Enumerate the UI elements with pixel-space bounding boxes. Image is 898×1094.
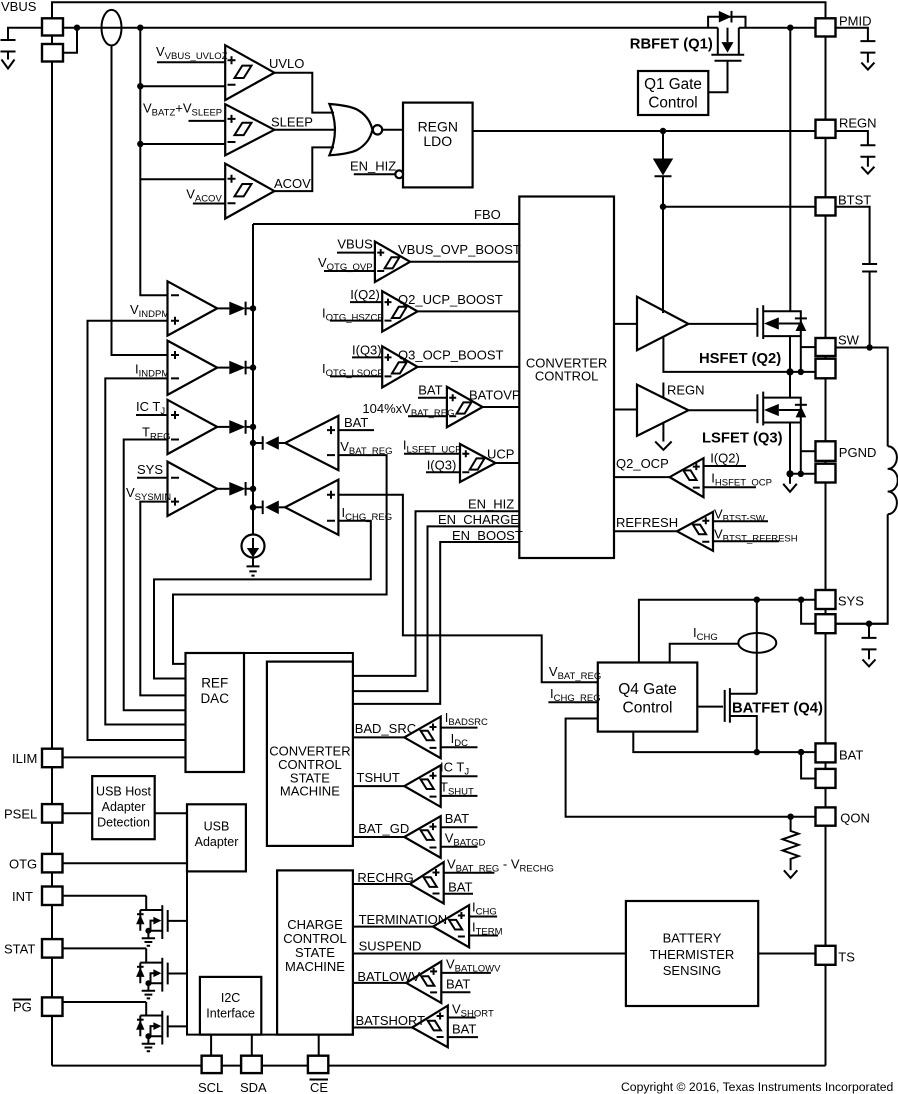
wire UVLO - input from rail (140, 85, 225, 87)
svg-text:DAC: DAC (200, 691, 229, 706)
junction SW node dots (786, 368, 793, 375)
capacitor at PMID (836, 28, 868, 41)
transistor open-drain FET PG (136, 1002, 187, 1051)
pin BAT square2 (816, 769, 836, 788)
wire TERMINATION + input (469, 916, 497, 918)
wire EN_HIZ from state machine to converter control (353, 511, 519, 676)
wire Q2_UCP - input (330, 320, 382, 322)
wire LSFET gate (688, 409, 757, 411)
wire PGND node to pin2 (790, 473, 816, 475)
wire Q2_OCP - input (704, 486, 757, 488)
svg-text:SDA: SDA (240, 1080, 267, 1094)
wire Q3_OCP_BOOST output (418, 366, 520, 368)
svg-text:I(Q2): I(Q2) (710, 451, 740, 466)
wire ACOV + input from rail (140, 178, 225, 180)
svg-text:I(Q3): I(Q3) (352, 343, 382, 358)
svg-text:MACHINE: MACHINE (285, 959, 345, 974)
transistor RBFET Q1 (708, 11, 745, 92)
wire I_CHG_REG stub into Q4 (548, 701, 597, 703)
junction BTST node (660, 204, 666, 210)
pin SCL (202, 1056, 222, 1073)
wire HSFET gate (688, 323, 757, 325)
wire PMID rail down to HSFET drain (789, 28, 791, 312)
svg-text:CE: CE (310, 1080, 328, 1094)
junction BAT node dots (754, 749, 760, 755)
svg-text:PGND: PGND (839, 445, 877, 460)
svg-text:SCL: SCL (198, 1080, 223, 1094)
error amp IC TJ / TREG (168, 400, 218, 454)
wire UCP + input (404, 453, 460, 455)
block USB Host Adapter Detection (92, 776, 155, 839)
svg-text:Control: Control (648, 95, 697, 112)
svg-text:PG: PG (13, 1000, 32, 1015)
diode VINDPM to bus (217, 307, 229, 309)
label REGN supply stub (662, 383, 664, 398)
svg-text:BAT: BAT (452, 1022, 476, 1037)
comparator UCP (460, 444, 496, 482)
wire right pin rail (825, 37, 827, 1066)
ground chevron under resistor (784, 870, 797, 878)
wire bottom rail (52, 1065, 826, 1067)
error amp SYS / VSYSMIN (168, 462, 218, 516)
svg-text:Q4 Gate: Q4 Gate (618, 681, 677, 698)
svg-text:ACOV: ACOV (274, 176, 311, 191)
comparator BATLOWV (points left) (353, 982, 406, 984)
wire Q3_OCP + input (352, 356, 382, 358)
pin SDA (241, 1056, 262, 1073)
pin BTST (816, 197, 836, 215)
wire Q2_UCP_BOOST output (418, 310, 520, 312)
svg-text:BATSHORT: BATSHORT (356, 1013, 426, 1028)
svg-text:BAT: BAT (445, 811, 469, 826)
comparator BAT_GD (points left) (353, 836, 404, 838)
ground chevron under PMID cap (861, 63, 874, 70)
wire center column outline (187, 871, 353, 1034)
wire IINDPM - input to REF DAC rail (105, 378, 185, 724)
pin BAT square1 (816, 743, 836, 762)
wire inductor bottom to SYS (836, 514, 888, 624)
svg-text:TSHUT: TSHUT (357, 770, 400, 785)
pin SYS square2 (816, 614, 836, 633)
pin PGND square2 (816, 464, 836, 483)
wire Q4 bottom to BAT (633, 732, 815, 753)
ground chevron under REGN cap (861, 167, 874, 174)
error amp VINDPM (168, 281, 218, 335)
wire BATSHORT + input (448, 1017, 476, 1019)
comparator TERMINATION (points left) (353, 926, 433, 928)
wire REF DAC top link to state machine (244, 653, 353, 662)
pin CE (overline) (308, 1056, 328, 1073)
svg-text:EN_BOOST: EN_BOOST (452, 528, 523, 543)
svg-text:I(Q3): I(Q3) (427, 458, 457, 473)
wire from ellipse down to IINDPM + input (112, 46, 168, 356)
wire HSFET driver lower terminal to SW (663, 337, 790, 372)
wire BAT_GD - input (441, 846, 478, 848)
svg-text:BATOVP: BATOVP (469, 388, 521, 403)
wire NOR output to REGN LDO (382, 129, 403, 131)
junction PMID node (787, 25, 793, 31)
svg-text:BATLOWV: BATLOWV (357, 969, 420, 984)
wire ACOV output to NOR (274, 147, 334, 191)
error amp IINDPM (168, 341, 218, 395)
svg-text:REGN: REGN (667, 383, 705, 398)
transistor open-drain FET STAT (136, 948, 187, 998)
diode ICTJ to bus (217, 426, 229, 428)
junction REGN node (660, 128, 666, 134)
comparator SLEEP (225, 104, 274, 155)
block Q4 Gate Control (598, 663, 698, 732)
block I2C Interface (200, 977, 261, 1035)
wire ICTJ + input stub (136, 414, 168, 416)
block CONVERTER CONTROL STATE MACHINE (267, 662, 353, 846)
svg-text:REF: REF (201, 676, 228, 691)
junction at x=140 on VBUS row (137, 25, 143, 31)
svg-text:INT: INT (12, 889, 33, 904)
wire amp2 + input to Q4 gate control (V_BAT_REG) (338, 495, 597, 683)
svg-text:I(Q2): I(Q2) (350, 287, 380, 302)
svg-text:CHARGE: CHARGE (287, 917, 343, 932)
svg-text:USB: USB (204, 820, 230, 834)
svg-text:UVLO: UVLO (269, 56, 304, 71)
wire SW to inductor top (836, 348, 888, 447)
block USB Adapter (187, 804, 246, 871)
svg-text:SUSPEND: SUSPEND (359, 939, 422, 954)
capacitor at REGN (836, 131, 868, 145)
inductor L (888, 446, 898, 514)
junction UVLO - on rail (137, 83, 143, 89)
comparator BATSHORT (points left) (353, 1027, 412, 1029)
svg-text:LDO: LDO (423, 133, 452, 149)
wire left pin rail (x=52 down entire left side) (51, 36, 53, 1066)
svg-text:Detection: Detection (97, 816, 150, 830)
wire amp1 - input V_BAT_REG to REF DAC (173, 455, 387, 664)
wire QON into Q4 gate control (566, 719, 816, 817)
svg-text:BTST: BTST (838, 193, 871, 208)
transistor open-drain FET INT (136, 896, 187, 946)
comparator Q2_UCP_BOOST (382, 291, 417, 331)
junction QON resistor tap (787, 814, 793, 820)
wire x=663 down to HSFET driver top (662, 207, 664, 313)
buffer LSFET gate driver (614, 409, 637, 411)
svg-text:SLEEP: SLEEP (271, 115, 313, 130)
wire VSYSMIN + input to REF DAC rail (140, 502, 185, 696)
junction BTST cap to SW wire (866, 344, 872, 350)
comparator RECHRG (points left) (353, 883, 410, 885)
junction SYS node dots (754, 597, 760, 603)
ground chevron under LSFET driver (655, 423, 671, 450)
diode SYS to bus (217, 488, 229, 490)
capacitor at VBUS input (8, 28, 42, 40)
wire SDA stub (251, 1035, 253, 1056)
block CONVERTER CONTROL (519, 197, 614, 559)
wire BATOVP + input (418, 397, 447, 399)
svg-text:REFRESH: REFRESH (616, 515, 678, 530)
svg-text:REGN: REGN (839, 116, 877, 131)
wire BATOVP output (483, 406, 520, 408)
svg-text:ILIM: ILIM (12, 751, 37, 766)
svg-text:VBUS: VBUS (337, 237, 373, 252)
svg-text:UCP: UCP (487, 447, 514, 462)
svg-text:EN_CHARGE: EN_CHARGE (438, 512, 519, 527)
wire BAD_SRC - input (441, 746, 478, 748)
wire error bus vertical (252, 224, 254, 535)
wire BTST row to pin (663, 206, 816, 208)
pin TS (816, 946, 836, 965)
svg-text:TS: TS (838, 950, 855, 965)
comparator Q3_OCP_BOOST (382, 346, 417, 387)
svg-text:VBUS_OVP_BOOST: VBUS_OVP_BOOST (398, 242, 521, 257)
svg-text:Q2_OCP: Q2_OCP (616, 456, 669, 471)
svg-text:CONTROL: CONTROL (535, 369, 599, 384)
wire REFRESH - input (713, 540, 779, 542)
wire SLEEP - input from rail (140, 143, 225, 145)
svg-text:OTG: OTG (9, 857, 37, 872)
wire top rail VBUS to PMID (52, 2, 826, 18)
svg-text:Q3_OCP_BOOST: Q3_OCP_BOOST (398, 348, 504, 363)
transistor BATFET Q4 (697, 688, 757, 752)
wire Q2_UCP + input (350, 301, 382, 303)
wire SYS - input stub (137, 477, 168, 479)
svg-text:SYS: SYS (137, 462, 163, 477)
wire Q4 top to SYS (639, 600, 816, 663)
svg-text:TERMINATION: TERMINATION (359, 912, 448, 927)
comparator VBUS_OVP_BOOST (375, 242, 410, 283)
svg-text:PSEL: PSEL (4, 807, 37, 822)
svg-text:BAT: BAT (344, 415, 368, 430)
wire TSHUT - input (441, 795, 478, 797)
comparator BATOVP (447, 387, 483, 427)
svg-text:SW: SW (838, 333, 860, 348)
error amp BAT/V_BAT_REG (points left) (285, 416, 338, 470)
svg-text:RECHRG: RECHRG (357, 870, 413, 885)
comparator TSHUT (points left) (353, 785, 404, 787)
svg-text:BAT_GD: BAT_GD (358, 821, 409, 836)
wire BATOVP - input (408, 415, 447, 417)
wire ACOV - input (193, 203, 225, 205)
svg-text:Q1 Gate: Q1 Gate (644, 76, 702, 93)
svg-text:CONTROL: CONTROL (283, 931, 347, 946)
wire BATLOWV + input (441, 972, 491, 974)
wire VBUS_OVP + input (337, 252, 375, 254)
wire RECHRG - input (444, 893, 473, 895)
current sense ellipse I_CHG (756, 600, 758, 694)
wire BATLOWV - input (441, 991, 470, 993)
svg-text:VBUS: VBUS (1, 0, 37, 14)
ground chevron under VBUS capacitor (2, 60, 15, 69)
buffer HSFET gate driver (614, 323, 637, 325)
svg-text:BATTERY: BATTERY (663, 931, 722, 946)
junction SLEEP - on rail (137, 141, 143, 147)
resistor QON pulldown (783, 817, 799, 871)
wire VBUS_OVP_BOOST output (410, 261, 519, 263)
wire SW pin1 stub (801, 346, 816, 348)
wire RECHRG + input (444, 872, 495, 874)
comparator UVLO (225, 45, 274, 100)
pin SW square2 (816, 359, 836, 379)
block CHARGE CONTROL STATE MACHINE (277, 870, 353, 1034)
gate NOR (3-input) (329, 104, 372, 155)
svg-text:QON: QON (840, 811, 870, 826)
transistor HSFET Q2 (757, 305, 807, 372)
block BATTERY THERMISTER SENSING (626, 901, 758, 1006)
comparator ACOV (225, 164, 274, 219)
svg-text:FBO: FBO (474, 207, 501, 222)
svg-text:USB Host: USB Host (96, 785, 151, 799)
wire CE stub (318, 1035, 320, 1056)
svg-text:REGN: REGN (418, 118, 458, 134)
wire detection to USB adapter (155, 812, 187, 814)
wire BAT_GD + input (441, 826, 478, 828)
svg-text:BAT: BAT (446, 977, 470, 992)
junction at x=77 (74, 25, 80, 31)
svg-text:BAD_SRC: BAD_SRC (355, 721, 416, 736)
wire VBUS row y=27.7 left of RBFET (63, 27, 718, 29)
current sense ellipse on VBUS (102, 10, 122, 46)
block REGN LDO (403, 103, 473, 188)
wire rail x=140.3 down to VINDPM - input (140, 28, 167, 296)
pin VBUS square 2 (42, 44, 63, 62)
wire SCL stub (210, 1035, 212, 1056)
svg-text:BAT: BAT (839, 748, 863, 763)
junction PGND node dots (786, 470, 793, 477)
ground IEC under current source (247, 557, 260, 575)
wire VINDPM + input to REF DAC rail (88, 321, 186, 740)
wire EN_BOOST (353, 542, 519, 704)
wire amp1 + input stub (338, 429, 374, 431)
svg-text:STATE: STATE (295, 945, 335, 960)
wire UCP output (496, 462, 520, 464)
svg-text:PMID: PMID (839, 14, 872, 29)
block Q1 Gate Control (638, 71, 708, 115)
block REF DAC (186, 653, 245, 772)
svg-text:Q2_UCP_BOOST: Q2_UCP_BOOST (398, 292, 503, 307)
comparator Q2_OCP (points left) (614, 476, 670, 478)
current source on error bus (242, 535, 265, 558)
svg-text:RBFET (Q1): RBFET (Q1) (630, 37, 713, 53)
svg-text:SENSING: SENSING (663, 963, 722, 978)
pin PMID (816, 18, 836, 36)
wire EN_CHARGE (353, 526, 519, 691)
wire SYS cap tap (836, 623, 888, 625)
diode amp2 to bus (279, 506, 285, 508)
wire BAD_SRC + input (441, 727, 478, 729)
svg-text:Adapter: Adapter (102, 800, 146, 814)
wire BATSHORT - input (448, 1036, 478, 1038)
wire VBUS_OVP - input (324, 270, 375, 272)
wire TERMINATION - input (469, 935, 498, 937)
ground chevron at LSFET source (783, 474, 797, 492)
wire VBUS pin2 to node (63, 28, 77, 53)
svg-text:BAT: BAT (448, 880, 472, 895)
wire amp2 - input I_CHG_REG to REF DAC (154, 521, 371, 679)
svg-text:EN_HIZ: EN_HIZ (350, 159, 396, 174)
diode amp1 to bus (279, 442, 285, 444)
pin REGN (816, 120, 836, 138)
svg-text:LSFET (Q3): LSFET (Q3) (702, 431, 783, 447)
ground chevron under SYS cap (863, 659, 876, 666)
wire BAT pin2 jog (801, 752, 815, 778)
wire SLEEP + input (189, 120, 226, 122)
wire thermister sensing to TS pin (758, 953, 815, 955)
wire UCP - input (426, 471, 460, 473)
wire RBFET output to PMID pin (739, 27, 816, 29)
error amp I_CHG_REG (points left) (285, 480, 338, 535)
svg-text:MACHINE: MACHINE (280, 784, 340, 799)
svg-text:STAT: STAT (4, 942, 35, 957)
svg-text:HSFET (Q2): HSFET (Q2) (699, 351, 781, 367)
wire UVLO + input (157, 61, 225, 63)
svg-text:Interface: Interface (206, 1007, 255, 1021)
diode IINDPM to bus (217, 367, 229, 369)
svg-text:Adapter: Adapter (195, 835, 239, 849)
wire UVLO output to NOR (274, 73, 334, 113)
comparator BAD_SRC (points left) (353, 736, 404, 738)
svg-text:Copyright © 2016, Texas Instru: Copyright © 2016, Texas Instruments Inco… (621, 1080, 893, 1094)
svg-text:Control: Control (623, 700, 673, 717)
svg-text:I2C: I2C (221, 991, 240, 1005)
wire FBO to converter control (253, 223, 519, 225)
svg-text:EN_HIZ: EN_HIZ (468, 497, 514, 512)
wire REFRESH + input (713, 520, 768, 522)
wire EN_HIZ with bubble into REGN LDO (354, 173, 396, 175)
comparator REFRESH (points left) (614, 530, 677, 532)
wire I_CHG sense from Q4 (670, 644, 739, 663)
wire SW node to pin2 (790, 371, 816, 373)
wire Q2_OCP + input (704, 465, 747, 467)
pin SYS square1 (816, 590, 836, 609)
wire SLEEP output to NOR (274, 129, 334, 131)
pin PGND square1 (816, 441, 836, 461)
wire TREG - input to REF DAC rail (124, 440, 186, 711)
wire Q3_OCP - input (330, 375, 382, 377)
pin QON (816, 807, 836, 825)
wire SYS pin2 jog (801, 600, 815, 624)
svg-text:SYS: SYS (838, 594, 864, 609)
svg-text:THERMISTER: THERMISTER (650, 947, 735, 962)
svg-text:BAT: BAT (418, 383, 442, 398)
transistor LSFET Q3 (757, 372, 807, 474)
wire PGND pin1 stub (801, 450, 816, 452)
wire REGN LDO output to REGN pin (473, 130, 816, 132)
wire TSHUT + input (441, 775, 478, 777)
capacitor BTST bootstrap (836, 207, 870, 264)
diode REGN to BTST (662, 131, 664, 159)
capacitor at SYS (868, 624, 870, 638)
pin SW square1 (816, 338, 836, 356)
svg-text:BATFET (Q4): BATFET (Q4) (732, 701, 823, 717)
pin VBUS square 1 (42, 18, 63, 35)
wire SUSPEND to battery thermister sensing (353, 953, 626, 955)
